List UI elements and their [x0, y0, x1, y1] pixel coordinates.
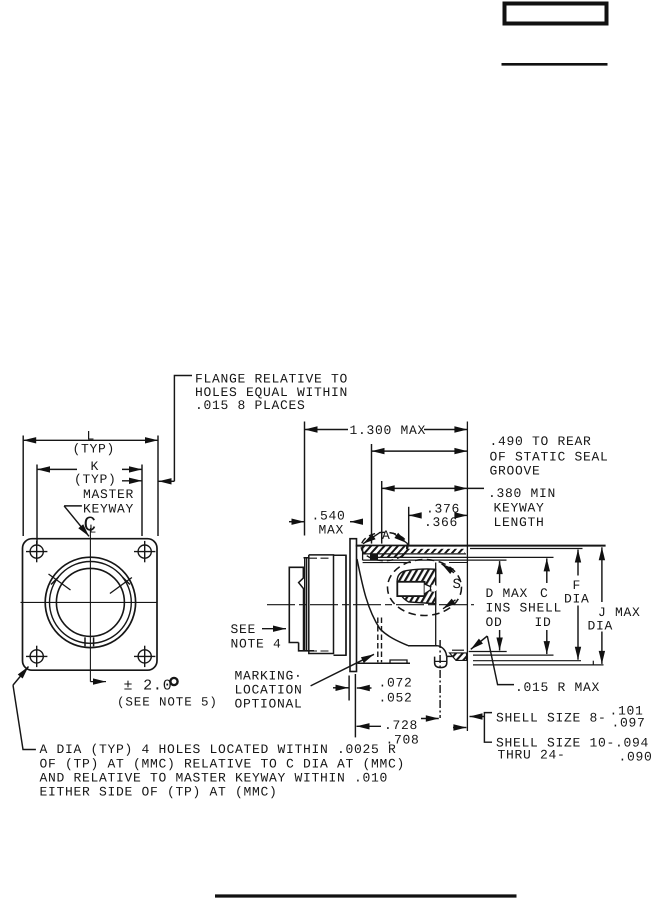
.490 dim line	[372, 450, 468, 452]
A DIA leader from hole	[13, 685, 36, 749]
svg-text:.015 R MAX: .015 R MAX	[515, 680, 600, 695]
svg-text:DIA: DIA	[588, 619, 614, 634]
.376 ext line	[408, 507, 410, 545]
front view	[21, 528, 158, 682]
vertical centerline	[89, 528, 91, 682]
master keyway tick bottom 2	[93, 637, 95, 646]
svg-text:DIA: DIA	[564, 592, 590, 607]
L dim ext line right	[157, 436, 159, 537]
.728 dim left arrow	[357, 725, 382, 727]
solder bump mid line	[435, 660, 447, 662]
shell size bracket	[484, 713, 492, 743]
L dim ext line left	[22, 436, 24, 537]
L dim line	[23, 439, 158, 441]
body S-curve outline	[357, 559, 408, 646]
.015 R MAX leader	[487, 636, 514, 685]
.540 left arrow outside	[289, 521, 305, 523]
svg-text:(TYP): (TYP)	[73, 442, 116, 457]
master keyway leader arrow	[64, 506, 89, 536]
K dim line left arrow	[37, 468, 77, 470]
svg-text:KEYWAY: KEYWAY	[494, 501, 545, 516]
svg-text:INS SHELL: INS SHELL	[486, 601, 563, 616]
.728 dim right arrow	[421, 718, 439, 720]
svg-text:L: L	[89, 523, 96, 537]
rear collar outline	[334, 555, 347, 655]
shell wall hatch band lower lip	[379, 554, 407, 557]
rear block chevron edge	[299, 567, 304, 651]
svg-text:EITHER SIDE OF (TP) AT (MMC): EITHER SIDE OF (TP) AT (MMC)	[40, 785, 278, 800]
keyway slot line upper-left	[49, 574, 71, 590]
header box	[215, 4, 608, 897]
svg-text:.540: .540	[312, 509, 346, 524]
shell top outer line	[356, 545, 606, 547]
shell size dim left arrow	[470, 716, 485, 718]
body bottom front flat	[447, 655, 468, 657]
.376 dim right arrow	[457, 514, 468, 516]
rear collar inner edge	[345, 555, 347, 655]
socket keyhole rectangle	[397, 582, 424, 596]
rear teeth line 1	[304, 558, 306, 651]
svg-text:A DIA (TYP) 4 HOLES LOCATED WI: A DIA (TYP) 4 HOLES LOCATED WITHIN .0025…	[40, 742, 397, 757]
svg-text:.490 TO REAR: .490 TO REAR	[490, 434, 592, 449]
band left vertical	[362, 546, 364, 560]
socket mouth white	[430, 585, 437, 592]
detail A dashed ellipse	[361, 532, 408, 560]
1.300 ext line left	[304, 422, 306, 536]
shell bore circle	[56, 568, 124, 636]
shell outer circle	[45, 557, 135, 647]
svg-text:.052: .052	[379, 691, 413, 706]
insert front face line	[435, 563, 437, 647]
underline top right	[502, 63, 608, 66]
D insert OD surface line	[363, 559, 507, 561]
svg-text:.728: .728	[384, 718, 418, 733]
A DIA leader arrowhead	[13, 667, 29, 686]
detail S dashed ellipse	[388, 560, 462, 616]
svg-text:± 2.0: ± 2.0	[124, 678, 173, 695]
marking location leader	[311, 654, 374, 686]
.380 dim line	[382, 487, 468, 489]
rear pad notch	[390, 660, 407, 663]
svg-text:OPTIONAL: OPTIONAL	[235, 697, 303, 712]
svg-text:LOCATION: LOCATION	[235, 683, 303, 698]
svg-text:OD: OD	[486, 615, 503, 630]
svg-text:ID: ID	[535, 615, 552, 630]
D dim lower arrow	[499, 630, 501, 651]
J dim upper arrow	[601, 547, 603, 602]
.728 ext dash-dot line	[439, 640, 441, 718]
svg-text:LENGTH: LENGTH	[494, 515, 545, 530]
.380 ext line	[381, 481, 383, 544]
marking location dashed line 1	[377, 618, 379, 663]
master keyway tick bottom 1	[84, 637, 86, 646]
socket funnel edges	[425, 584, 432, 594]
detail A arrow right	[393, 533, 407, 543]
rear drum outline	[304, 555, 334, 654]
flange note lower arrow	[122, 480, 142, 482]
mounting flange plate	[350, 539, 357, 672]
body bottom flat	[408, 645, 438, 647]
master keyway leader stub	[64, 505, 82, 507]
svg-text:OF (TP) AT (MMC) RELATIVE TO C: OF (TP) AT (MMC) RELATIVE TO C DIA AT (M…	[40, 756, 406, 771]
seal groove black square	[370, 554, 378, 560]
socket contact hatched body	[397, 569, 436, 604]
svg-text:1.300 MAX: 1.300 MAX	[350, 423, 427, 438]
footer bar	[215, 894, 517, 897]
detail S arrow upper	[442, 564, 455, 573]
svg-text:.015 8 PLACES: .015 8 PLACES	[195, 398, 306, 413]
flange square	[23, 539, 158, 671]
hole top-left	[26, 541, 47, 562]
keyway slot line upper-right	[110, 578, 132, 594]
.490 ext line	[371, 444, 373, 544]
F bottom line	[473, 660, 581, 662]
C dim lower arrow	[546, 630, 548, 654]
see note 4 arrow	[262, 628, 286, 630]
hole bottom-left	[26, 646, 47, 667]
svg-text:.366: .366	[424, 515, 458, 530]
svg-text:(TYP): (TYP)	[74, 472, 117, 487]
rear drum thread dash bottom	[309, 650, 332, 652]
svg-text:S: S	[453, 577, 461, 593]
F dim lower arrow	[577, 606, 579, 660]
rear block step bottom	[299, 643, 314, 651]
bottom shell hatch wedge	[450, 653, 467, 661]
flange note leader arrowhead	[159, 480, 175, 482]
rear accessory left block	[289, 567, 304, 642]
keyway tick upper-left	[51, 577, 59, 585]
D dim upper arrow	[499, 561, 501, 583]
svg-text:(SEE NOTE 5): (SEE NOTE 5)	[117, 696, 218, 710]
svg-text:GROOVE: GROOVE	[490, 464, 541, 479]
body shoulder radius	[438, 646, 447, 657]
flange plate ext line left	[348, 676, 350, 701]
shell front face line	[466, 422, 468, 732]
svg-text:THRU 24-: THRU 24-	[498, 748, 566, 763]
D bottom line	[469, 651, 507, 653]
right end tick	[592, 661, 594, 665]
.015 R MAX arrowhead	[471, 636, 488, 649]
axis centerline	[267, 604, 474, 606]
svg-text:SHELL SIZE 8-: SHELL SIZE 8-	[496, 711, 607, 726]
rear drum thread dash top	[309, 557, 332, 559]
svg-text:A: A	[382, 528, 391, 543]
.380 dim stub to text	[467, 487, 484, 489]
K dim line right arrow	[122, 468, 142, 470]
horizontal centerline	[21, 601, 158, 603]
wedge top line	[452, 649, 464, 651]
1.300 dim line right	[424, 429, 467, 431]
J bottom line	[473, 664, 604, 666]
band step edge	[406, 546, 408, 550]
hole bottom-right	[134, 646, 155, 667]
F dia top line	[470, 548, 583, 550]
svg-text:AND RELATIVE TO MASTER KEYWAY: AND RELATIVE TO MASTER KEYWAY WITHIN .01…	[40, 771, 389, 786]
K dim ext line left	[36, 465, 38, 545]
hole top-right	[134, 541, 155, 562]
.376 dim left arrow	[409, 514, 422, 516]
shell wall hatch band rear thick	[363, 546, 407, 554]
flange note leader vertical	[174, 376, 192, 482]
J dim lower arrow	[601, 632, 603, 664]
rear teeth line 2	[306, 558, 308, 651]
svg-text:.380 MIN: .380 MIN	[488, 486, 556, 501]
svg-text:NOTE 4: NOTE 4	[231, 637, 282, 652]
svg-text:.072: .072	[379, 676, 413, 691]
F dim upper arrow	[577, 550, 579, 576]
svg-text:MAX: MAX	[319, 523, 345, 538]
insert top line rear	[363, 562, 411, 564]
body rear bottom line	[358, 662, 411, 664]
svg-text:.090: .090	[619, 750, 652, 765]
flange plate ext line right	[354, 674, 356, 737]
socket mouth arc	[429, 585, 432, 592]
section view	[267, 422, 606, 732]
detail S arrow lower	[443, 600, 456, 609]
1.300 dim line left	[305, 429, 349, 431]
svg-text:MASTER: MASTER	[83, 487, 134, 502]
svg-text:.097: .097	[612, 716, 646, 731]
dimensions	[13, 376, 602, 750]
coupling ring circle	[50, 562, 132, 644]
.540 right arrow outside	[350, 521, 363, 523]
.072 dim right arrow	[357, 687, 372, 689]
C bottom line	[473, 654, 554, 656]
marking location dashed line 2	[381, 618, 383, 663]
solder bump	[435, 657, 447, 668]
svg-text:D MAX: D MAX	[486, 586, 529, 601]
shell size dim right arrow	[453, 727, 466, 729]
detail A arrow left	[363, 533, 380, 544]
.072 dim left arrow	[333, 687, 349, 689]
svg-text:SEE: SEE	[231, 622, 257, 637]
title block box top right	[505, 4, 607, 24]
socket funnel white	[425, 584, 432, 593]
C dim upper arrow	[546, 558, 548, 583]
shell wall hatch band front thin	[407, 549, 465, 553]
insert top line front	[449, 562, 467, 564]
shell wall band bottom line	[363, 553, 466, 555]
C shell ID surface line	[378, 556, 554, 558]
svg-text:MARKING·: MARKING·	[235, 669, 303, 684]
svg-text:OF STATIC SEAL: OF STATIC SEAL	[490, 450, 609, 465]
rotation tolerance arrow	[90, 681, 106, 683]
K dim ext line right	[141, 465, 143, 537]
svg-text:C: C	[540, 586, 549, 601]
keyway tick upper-right	[122, 577, 129, 585]
